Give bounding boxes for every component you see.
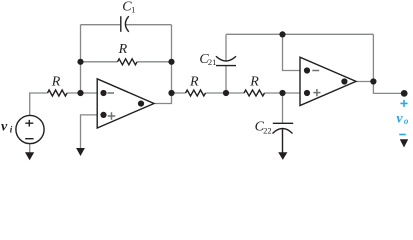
svg-text:v: v (1, 120, 8, 135)
svg-text:R: R (51, 75, 61, 90)
svg-text:v: v (396, 112, 403, 127)
svg-text:22: 22 (263, 126, 272, 136)
svg-text:i: i (10, 125, 13, 135)
svg-text:R: R (189, 75, 199, 90)
svg-text:1: 1 (131, 4, 135, 14)
svg-text:o: o (404, 116, 409, 126)
svg-text:R: R (118, 42, 128, 57)
svg-text:21: 21 (208, 57, 217, 67)
svg-text:R: R (249, 75, 259, 90)
